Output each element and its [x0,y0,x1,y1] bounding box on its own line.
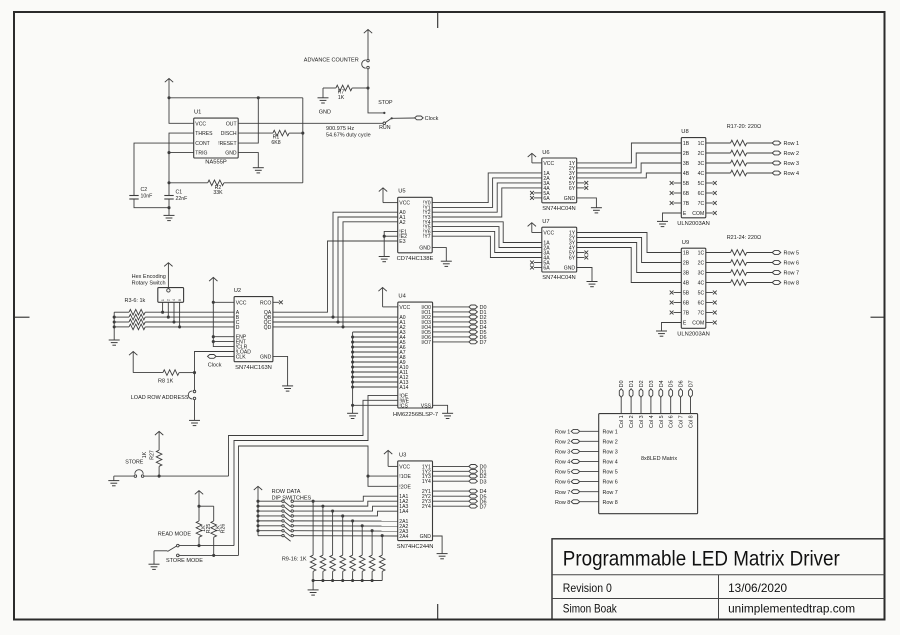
wire U2 VCC tie [213,302,234,346]
wire DIP row 5 to U3 2A1 [294,520,398,522]
svg-text:Row 4: Row 4 [784,171,800,177]
svg-text:Col 6: Col 6 [669,415,675,428]
junction QD branch [341,325,344,328]
resistor R8 1K [133,370,194,385]
svg-text:A2: A2 [399,220,405,226]
svg-text:D0: D0 [619,380,625,387]
svg-text:2C: 2C [698,261,705,267]
svg-text:CD74HC138E: CD74HC138E [397,256,434,262]
junction R25 top [197,505,200,508]
svg-text:SN74HC04N: SN74HC04N [542,275,576,281]
svg-text:GND: GND [564,266,576,272]
junction DIP rail row 4 [256,514,259,517]
svg-text:6A: 6A [543,196,550,202]
wire U1 !RESET to VCC rail [238,98,258,143]
junction U3 !1OE [366,475,369,478]
ground (C1/C2) [164,208,175,221]
no-connect U9 5C [706,291,717,295]
wire U4 A3-A14/!CS ground bus [353,332,398,413]
no-connect U8 7B [670,201,682,205]
wire QD branch to U5 A2 [343,222,398,327]
junction DIP row 7 / R15 [371,529,374,532]
ground (U9 E) [656,331,667,336]
svg-text:Col 5: Col 5 [659,415,665,428]
switch DIP row 5 [258,520,293,527]
ground (store switch) [108,481,119,486]
wire U5 enable tie [384,231,398,256]
net label Row 7 (U9 output) [772,271,799,277]
svg-text:SN74HC04N: SN74HC04N [542,206,576,212]
wire U9 E to ground [662,323,682,332]
ground (U7 GND) [587,282,598,287]
svg-text:VCC: VCC [236,300,247,306]
svg-text:STOP: STOP [378,100,393,106]
svg-text:READ MODE: READ MODE [158,531,192,537]
junction rail / ground [312,579,315,582]
wire button to R7 node [367,69,369,88]
net label Row 5 (U9 output) [772,251,799,257]
svg-text:4C: 4C [698,281,705,287]
switch SW advance counter (push button) [304,58,369,69]
wire store node right [159,475,228,477]
svg-text:13/06/2020: 13/06/2020 [728,581,787,595]
net label D7 (matrix column) [689,380,695,413]
svg-text:Col 8: Col 8 [689,415,695,428]
junction A13 bus [351,380,354,383]
svg-text:GND: GND [225,151,237,157]
no-connect U8 5B [670,181,682,185]
wire !Y1 to U6 2A [432,178,542,208]
net label Row 2 (U8 output) [772,151,799,157]
resistor R11 1K [330,511,336,580]
svg-text:Row 2: Row 2 [603,439,618,445]
svg-text:R27: R27 [149,450,155,460]
net label Row 3 (matrix input) [555,450,599,456]
svg-text:!Y7: !Y7 [423,234,431,240]
svg-text:Hex Encoding: Hex Encoding [132,274,166,280]
no-connect U8 6B [670,191,682,195]
svg-text:D7: D7 [480,504,487,510]
junction QB branch [331,316,334,319]
svg-text:U2: U2 [234,288,241,294]
no-connect U8 7C [706,201,717,205]
svg-text:GND: GND [319,110,331,116]
svg-text:1Y4: 1Y4 [422,479,431,485]
resistor R15 1K [369,531,375,581]
counter U2 SN74HC163N [234,288,273,371]
net label D2 (U3 output) [433,474,487,480]
svg-text:1A4: 1A4 [399,509,408,515]
junction R26 / store-mode line [212,554,215,557]
wire U6 4Y to U8 4B [577,173,682,178]
label R9-16 [282,556,307,562]
svg-text:RUN: RUN [379,125,391,131]
svg-text:5B: 5B [683,181,690,187]
svg-text:7B: 7B [683,311,690,317]
svg-text:CONT: CONT [195,141,209,147]
junction DIP row 6 / R14 [361,524,364,527]
junction DIP row 8 / R16 [381,534,384,537]
wire bus D [145,326,234,328]
net label Row 4 (matrix input) [555,460,599,466]
resistor R10 1K [320,506,326,580]
svg-text:D3: D3 [649,380,655,387]
net label D0 (U3 output) [433,465,487,471]
svg-text:STORE MODE: STORE MODE [166,558,203,564]
ground (R7) GND [318,98,331,116]
svg-text:1K: 1K [142,451,148,458]
net label Row 8 (U9 output) [772,281,799,287]
svg-text:Row 1: Row 1 [603,429,618,435]
wire U3 !1OE stub [368,475,398,477]
svg-text:6B: 6B [683,301,690,307]
power flag VCC (U4) [378,288,397,307]
svg-text:2A4: 2A4 [399,534,408,540]
svg-text:GND: GND [260,354,272,360]
title block [552,539,885,620]
switch DIP row 3 [258,510,293,517]
wire rail to ground [312,581,314,590]
junction R11 rail [331,579,334,582]
junction A14 bus [351,385,354,388]
power flag VCC (U6) [528,153,542,163]
svg-text:Row 7: Row 7 [555,490,570,496]
svg-text:Row 5: Row 5 [784,251,800,257]
svg-text:Row 7: Row 7 [784,271,800,277]
wire store mode line [179,554,238,556]
junction left rail D [113,325,116,328]
capacitor C1 22nF [164,189,187,207]
resistor R7 1K [323,85,368,101]
wire !Y6 to U7 3A [432,231,542,252]
svg-text:D5: D5 [669,380,675,387]
power flag VCC (advance counter) [364,30,372,60]
svg-text:Row 6: Row 6 [784,261,800,267]
wire net QB to U4 A0 [273,316,398,318]
net label Row 1 (U8 output) [772,141,799,147]
net label Row 4 (U8 output) [772,171,799,177]
no-connect U8 6C [706,191,717,195]
ground (load switch) [189,420,200,425]
wire U1 GND down [238,153,258,168]
net label D5 (U3 output) [433,494,487,500]
junction DIP rail row 3 [256,509,259,512]
svg-text:U4: U4 [398,294,406,300]
svg-text:I/O7: I/O7 [421,340,431,346]
svg-text:Programmable LED Matrix Driver: Programmable LED Matrix Driver [563,547,840,570]
svg-text:E3: E3 [399,239,405,245]
net label D2 (U4 I/O2) [433,315,487,321]
resistor R21 220 [706,250,773,256]
junction U2 ENP [212,335,215,338]
junction U2 ENT [212,340,215,343]
svg-text:7C: 7C [698,201,705,207]
net label D6 (matrix column) [679,380,685,413]
wire U1 DISCH to R1 [238,132,273,134]
svg-text:Row 3: Row 3 [784,161,800,167]
switch SW read/store mode [154,531,203,564]
junction A6 bus [351,345,354,348]
no-connect U9 6B [670,301,682,305]
svg-text:4C: 4C [698,171,705,177]
resistor R9 1K [310,501,316,580]
ground (U5 enables) [379,257,390,262]
svg-text:VCC: VCC [543,161,554,167]
buffer U3 SN74HC244N [397,453,434,550]
wire DIP row 8 to U3 2A4 [294,535,398,537]
svg-text:CLK: CLK [236,354,247,360]
switch SW store (push button) [114,460,159,478]
resistor R13 1K [350,521,356,581]
junction rotary pin 4 [178,325,181,328]
junction rotary pin 3 [172,320,175,323]
wire stop throw [368,88,385,114]
switch DIP row 1 [258,500,293,507]
wire rotary pin 1 drop [162,302,164,312]
wire store switch to ground [113,476,115,481]
wire U4 !WE to store [229,400,398,476]
svg-text:C2: C2 [141,187,148,193]
no-connect U6 6A [530,196,542,200]
switch SW stop/run [378,100,393,131]
junction A12 bus [351,375,354,378]
svg-text:VCC: VCC [399,464,410,470]
wire bus B [145,316,234,318]
svg-text:U5: U5 [398,189,405,195]
svg-text:Row 2: Row 2 [555,439,570,445]
svg-text:4B: 4B [683,171,690,177]
svg-text:3B: 3B [683,271,690,277]
no-connect U7 5A [530,261,542,265]
junction left rail B [113,316,116,319]
junction R7 / button / stop wire [366,86,369,89]
svg-text:Row 8: Row 8 [603,500,618,506]
wire !Y4 to U7 1A [432,222,542,243]
no-connect U7 6A [530,266,542,270]
net label Row 1 (matrix input) [555,429,599,435]
svg-text:VCC: VCC [399,305,410,311]
svg-text:Row 6: Row 6 [603,480,618,486]
driver U9 ULN2003AN [677,240,710,337]
junction DIP row 3 / R11 [331,509,334,512]
no-connect U6 6Y [577,186,589,190]
net label D1 (U3 output) [433,469,487,475]
wire U1 TRIG stub [169,152,194,154]
svg-text:NA555P: NA555P [205,159,227,165]
wire U2 !LOAD to switch [195,352,235,373]
svg-text:22nF: 22nF [176,196,188,202]
wire U7 GND [577,268,592,282]
svg-text:6C: 6C [698,301,705,307]
junction R12 rail [341,579,344,582]
junction DIP rail row 5 [256,519,259,522]
svg-text:Row 1: Row 1 [555,429,570,435]
svg-text:Col 7: Col 7 [679,415,685,428]
svg-text:Row 4: Row 4 [603,460,618,466]
svg-text:3C: 3C [698,271,705,277]
wire R3-6 left rail [114,312,129,340]
ground (R9-16 rail) [308,590,319,595]
svg-text:QD: QD [264,325,272,331]
power flag VCC (rotary switch) [164,263,172,289]
svg-text:2B: 2B [683,151,690,157]
net label Row 8 (matrix input) [555,500,599,506]
wire U6 2Y to U8 2B [577,153,682,168]
switch DIP row 4 [258,515,293,522]
svg-text:U8: U8 [681,129,688,135]
svg-text:Rotary Switch: Rotary Switch [132,281,166,287]
svg-text:6B: 6B [683,191,690,197]
label R17-20 [727,124,761,130]
junction DIP rail row 7 [256,529,259,532]
decoder U5 CD74HC138E [397,189,434,262]
svg-text:TRIG: TRIG [195,151,207,157]
resistor R12 1K [340,516,346,581]
net label D7 (U3 output) [433,504,487,510]
wire DIP row 7 to U3 2A3 [294,530,398,532]
junction R10 rail [321,579,324,582]
junction A7 bus [351,350,354,353]
svg-text:Simon Boak: Simon Boak [563,602,617,616]
wire U6 GND [577,198,597,208]
wire !Y2 to U6 3A [432,183,542,212]
no-connect U2 RCO [273,300,283,304]
svg-text:5B: 5B [683,291,690,297]
junction R27 / store wire [158,475,161,478]
svg-text:R26: R26 [221,524,227,534]
junction rotary pin 2 [167,316,170,319]
svg-text:3B: 3B [683,161,690,167]
svg-text:HM62256BLSP-7: HM62256BLSP-7 [393,412,438,418]
switch SW load row address (push button) [131,390,196,401]
net label Row 6 (matrix input) [555,480,599,486]
junction left rail C [113,320,116,323]
svg-text:4B: 4B [683,281,690,287]
ground (U6 GND) [591,208,602,213]
svg-text:1C: 1C [698,141,705,147]
no-connect U8 COM [706,211,717,215]
svg-text:33K: 33K [213,190,223,196]
svg-text:C1: C1 [176,189,183,195]
svg-text:STORE: STORE [125,460,144,466]
wire mode common to ground [153,551,155,564]
svg-text:VSS: VSS [421,403,432,409]
resistor R20 220 [706,170,773,176]
svg-text:6A: 6A [543,266,550,272]
no-connect U7 6Y [577,256,589,260]
svg-text:900.975 Hz: 900.975 Hz [326,126,354,132]
svg-text:5C: 5C [698,181,705,187]
wire U7 1Y to U9 1B [577,233,682,253]
svg-text:3C: 3C [698,161,705,167]
ground (U5 GND) [441,261,452,266]
wire DIP row 2 to U3 1A2 [294,501,398,506]
svg-text:A14: A14 [399,385,408,391]
net label D0 (matrix column) [619,380,625,413]
hex inverter U6 SN74HC04N [542,150,577,212]
svg-text:E: E [683,321,687,327]
junction THRES / R2 / C1 [167,181,170,184]
junction R25 / read line [197,544,200,547]
switch DIP row 7 [258,530,293,537]
svg-text:GND: GND [564,196,576,202]
ground (U3 GND) [437,554,448,559]
svg-text:U1: U1 [194,110,201,116]
wire bus C [145,321,234,323]
svg-text:unimplementedtrap.com: unimplementedtrap.com [728,602,855,616]
net label D6 (U3 output) [433,499,487,505]
svg-text:U9: U9 [682,240,689,246]
junction !CS bus [351,404,354,407]
net label D5 (matrix column) [669,380,675,413]
svg-text:D6: D6 [679,380,685,387]
wire !Y5 to U7 2A [432,227,542,248]
resistor R24 220 [706,280,773,286]
junction C1/C2 ground node [167,206,170,209]
wire U4 VSS [433,405,448,413]
resistor R18 220 [706,150,773,156]
net label D0 (U4 I/O0) [433,305,487,311]
junction A5 bus [351,340,354,343]
junction DIP rail row 2 [256,505,259,508]
ground (U1 GND) [253,168,264,173]
power flag VCC (DIP rail) [254,486,312,535]
junction DIP row 5 / R13 [351,519,354,522]
driver U8 ULN2003AN [677,129,710,227]
junction U2 VCC [212,301,215,304]
svg-text:Row 5: Row 5 [555,470,570,476]
svg-text:VCC: VCC [399,201,410,207]
resistor R22 220 [706,260,773,266]
svg-text:D3: D3 [480,479,487,485]
wire load button to ground [194,400,196,421]
op-amp U1 NA555P timer [194,110,239,166]
svg-text:Row 8: Row 8 [555,500,570,506]
svg-text:!2OE: !2OE [399,484,411,490]
svg-text:D7: D7 [480,340,487,346]
wire !Y3 to U6 4A [432,188,542,217]
wire U8 E to ground [663,213,682,221]
capacitor C2 10nF [129,187,169,208]
svg-text:LOAD ROW ADDRESS: LOAD ROW ADDRESS [131,395,189,401]
junction R8 / !LOAD / button [193,371,196,374]
svg-text:6K8: 6K8 [271,140,280,146]
power flag VCC (555 section) [165,79,173,98]
net label D4 (U4 I/O4) [433,325,487,331]
svg-text:D7: D7 [689,380,695,387]
net label Row 7 (matrix input) [555,490,599,496]
svg-text:Col 2: Col 2 [629,415,635,428]
junction QC branch [336,320,339,323]
wire !Y0 to U6 1A [432,173,542,203]
net label D3 (U4 I/O3) [433,320,487,326]
net label Row 5 (matrix input) [555,470,599,476]
wire U5 GND [432,248,446,262]
svg-text:4: 4 [172,299,176,301]
svg-text:R17-20: 220Ω: R17-20: 220Ω [727,124,761,130]
wire VCC to U1 VCC pin [169,98,194,124]
power flag VCC (R27) [155,431,163,450]
svg-text:GND: GND [419,246,431,252]
junction A10 bus [351,365,354,368]
svg-text:2B: 2B [683,261,690,267]
wire DIP row 4 to U3 1A4 [294,511,398,516]
net label Row 6 (U9 output) [772,261,799,267]
junction A4 bus [351,335,354,338]
net label Clock (timer output) [415,116,439,122]
wire DIP row 3 to U3 1A3 [294,506,398,511]
svg-text:ULN2003AN: ULN2003AN [677,331,710,337]
